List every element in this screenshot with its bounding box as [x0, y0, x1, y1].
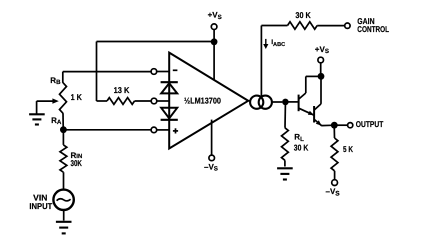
svg-text:CONTROL: CONTROL	[357, 24, 389, 34]
svg-text:5 K: 5 K	[343, 144, 353, 154]
svg-text:INPUT: INPUT	[29, 201, 53, 211]
svg-text:13 K: 13 K	[114, 85, 130, 95]
svg-text:½LM13700: ½LM13700	[184, 96, 221, 106]
svg-text:OUTPUT: OUTPUT	[356, 119, 384, 129]
svg-text:30 K: 30 K	[295, 10, 310, 20]
svg-text:30 K: 30 K	[294, 142, 309, 152]
svg-text:30K: 30K	[71, 158, 82, 168]
svg-text:1 K: 1 K	[71, 92, 82, 102]
